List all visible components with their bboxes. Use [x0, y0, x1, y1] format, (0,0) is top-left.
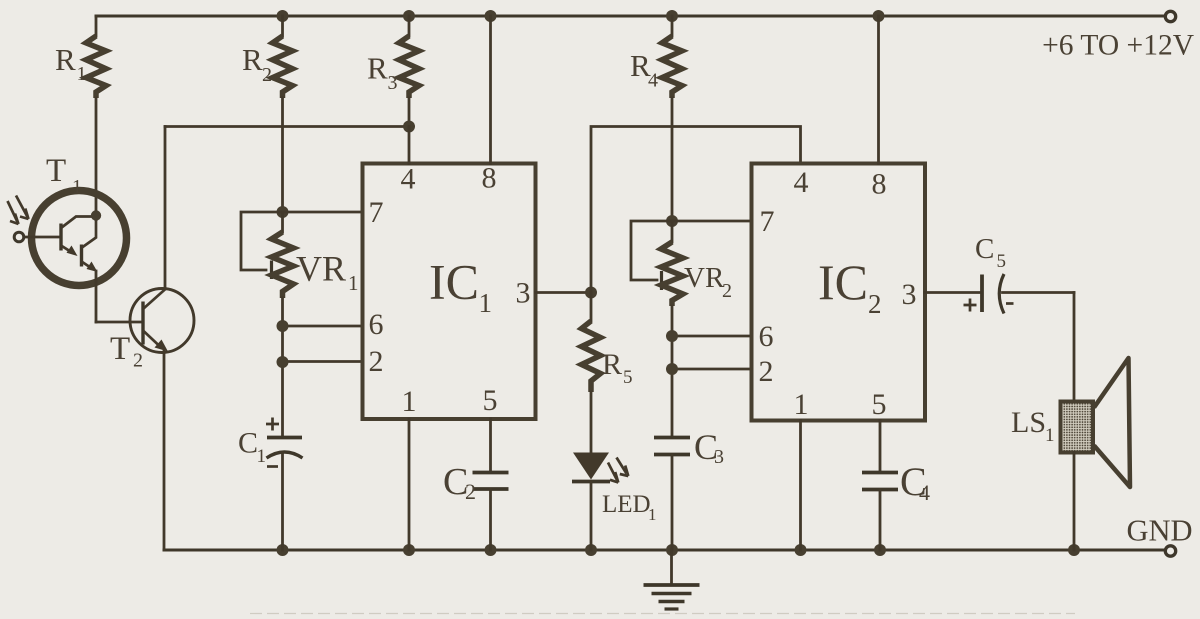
wire IC1 pin6	[277, 320, 363, 332]
svg-text:1: 1	[402, 385, 417, 418]
node junction dots on bottom rail	[277, 544, 1081, 556]
wire IC2 pin5 to C4	[879, 421, 882, 473]
label R4	[630, 48, 658, 92]
label R1	[55, 42, 87, 85]
svg-text:T: T	[110, 331, 130, 367]
svg-text:3: 3	[388, 72, 398, 94]
svg-text:8: 8	[872, 168, 887, 201]
label C1	[238, 427, 266, 468]
svg-text:2: 2	[759, 355, 774, 388]
ground symbol	[644, 550, 700, 609]
svg-text:6: 6	[759, 320, 774, 353]
svg-text:7: 7	[369, 196, 384, 229]
wire pin3 up to gate line	[591, 127, 801, 293]
capacitor C2	[473, 473, 509, 551]
transistor T1 (photo-darlington)	[24, 191, 127, 323]
label C5	[975, 233, 1006, 272]
label C2	[443, 461, 476, 504]
op-amp / IC2 box	[752, 164, 926, 421]
svg-text:2: 2	[369, 345, 384, 378]
potentiometer VR1	[241, 212, 294, 437]
svg-text:1: 1	[479, 288, 493, 318]
wire IC2 pin2	[666, 363, 752, 375]
svg-text:8: 8	[482, 162, 497, 195]
label VR1	[296, 249, 359, 296]
label LS1	[1011, 406, 1055, 446]
svg-text:R: R	[242, 42, 263, 77]
label GND	[1127, 514, 1193, 548]
svg-text:2: 2	[868, 289, 882, 319]
wire IC2 pin6	[666, 330, 752, 342]
svg-text:4: 4	[401, 163, 416, 196]
label R5	[602, 348, 633, 388]
svg-text:R: R	[55, 42, 76, 77]
pin labels IC1	[369, 162, 531, 419]
light arrows into T1	[8, 196, 29, 225]
svg-text:5: 5	[483, 384, 498, 417]
svg-text:2: 2	[465, 479, 476, 504]
capacitor C5 electrolytic	[964, 274, 1075, 314]
transistor T2	[96, 289, 194, 353]
svg-text:3: 3	[902, 278, 917, 311]
svg-text:4: 4	[794, 166, 809, 199]
pin labels IC2	[759, 166, 917, 421]
svg-text:VR: VR	[684, 262, 725, 294]
node junction dots on top rail	[277, 10, 885, 22]
wire IC2 pin7	[672, 220, 752, 223]
svg-text:T: T	[46, 153, 66, 189]
potentiometer VR2	[631, 221, 683, 437]
label IC2	[818, 254, 882, 319]
svg-text:R: R	[602, 348, 622, 381]
svg-text:7: 7	[760, 205, 775, 238]
wire C5 to speaker	[1073, 293, 1076, 402]
label LED1	[602, 491, 657, 524]
svg-text:3: 3	[714, 446, 724, 468]
wire T2 emitter down	[163, 350, 166, 550]
label IC1	[429, 254, 492, 319]
svg-text:4: 4	[648, 70, 658, 92]
capacitor C4	[862, 473, 898, 551]
resistor R3	[399, 16, 419, 127]
resistor R2	[273, 16, 293, 212]
wire IC1 pin7	[283, 211, 363, 214]
svg-text:LED: LED	[602, 491, 651, 518]
wire IC1 pin1	[408, 419, 411, 550]
wire IC2 pin3 output	[925, 291, 982, 294]
svg-text:1: 1	[77, 63, 87, 85]
svg-text:VR: VR	[296, 249, 346, 289]
node VR2 top junction	[666, 215, 678, 227]
wire IC1 pin8	[489, 16, 492, 164]
terminal GND	[1165, 546, 1175, 556]
resistor R1	[86, 16, 106, 216]
svg-text:1: 1	[648, 505, 657, 524]
label C4	[900, 459, 930, 505]
svg-text:IC: IC	[818, 254, 868, 310]
wire IC2 pin1	[799, 421, 802, 551]
wire IC1 pin5 to C2	[489, 419, 492, 473]
wire T2 collector up	[164, 127, 167, 289]
svg-text:C: C	[238, 427, 258, 460]
svg-text:2: 2	[133, 350, 143, 372]
svg-text:GND: GND	[1127, 514, 1193, 548]
wire top supply rail	[96, 15, 1164, 18]
label R3	[367, 51, 398, 95]
wire IC1 pin2	[277, 356, 363, 368]
wire feedback line left	[165, 125, 409, 128]
svg-text:4: 4	[919, 480, 930, 505]
svg-text:IC: IC	[429, 254, 479, 310]
terminal +V	[1165, 11, 1175, 21]
capacitor C1 electrolytic	[266, 418, 303, 551]
svg-text:C: C	[975, 233, 994, 265]
resistor R5	[582, 293, 601, 453]
svg-text:5: 5	[872, 388, 887, 421]
capacitor C3	[654, 438, 690, 551]
node VR1 top junction	[277, 206, 289, 218]
wire IC1 pin4	[408, 127, 411, 164]
svg-text:2: 2	[722, 280, 732, 302]
scan artifact bottom	[250, 613, 1075, 615]
svg-text:2: 2	[262, 64, 272, 86]
svg-text:LS: LS	[1011, 406, 1046, 439]
label C3	[694, 427, 724, 468]
wire bottom ground rail	[164, 549, 1164, 552]
svg-text:1: 1	[257, 446, 267, 467]
svg-text:3: 3	[516, 277, 531, 310]
label T2	[110, 331, 143, 372]
svg-text:+6 TO +12V: +6 TO +12V	[1042, 30, 1194, 62]
op-amp / IC1 box	[363, 164, 536, 420]
wire IC2 pin8	[877, 16, 880, 164]
svg-text:R: R	[367, 51, 388, 86]
svg-text:5: 5	[997, 251, 1007, 272]
LED1	[572, 453, 628, 551]
svg-text:6: 6	[369, 308, 384, 341]
label VR2	[684, 262, 732, 302]
svg-text:1: 1	[348, 271, 359, 295]
node pin4 junction	[403, 121, 415, 133]
label R2	[242, 42, 272, 86]
svg-text:1: 1	[1045, 425, 1055, 446]
resistor R4	[662, 16, 682, 221]
loudspeaker LS1	[1061, 358, 1131, 550]
label T1	[46, 153, 82, 198]
svg-text:1: 1	[794, 388, 809, 421]
svg-text:5: 5	[623, 367, 633, 388]
svg-text:1: 1	[72, 176, 82, 198]
terminal T1 base	[14, 232, 24, 242]
label +6 TO +12V	[1042, 30, 1194, 62]
wire IC1 pin3 output	[536, 287, 597, 299]
